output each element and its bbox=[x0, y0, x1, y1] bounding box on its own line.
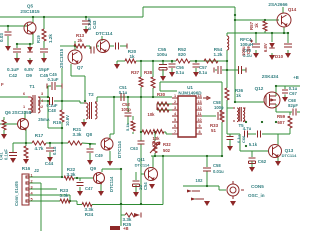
resistor R31 bbox=[142, 130, 164, 135]
svg-text:2SA2666: 2SA2666 bbox=[268, 2, 288, 7]
ground bbox=[249, 167, 255, 172]
wire (62,122)-(62,128) bbox=[61, 122, 63, 128]
ground bbox=[282, 97, 288, 102]
resistor R22 bbox=[64, 176, 74, 180]
wire (276,96)-(276,86) bbox=[275, 86, 277, 96]
wire (44,53)-(44,58) bbox=[43, 53, 45, 58]
wire (153,156)-(153,168) bbox=[152, 156, 154, 168]
connector J2 bbox=[22, 174, 29, 205]
svg-text:R31: R31 bbox=[152, 141, 160, 146]
wire (62,101)-(62,110) bbox=[61, 101, 63, 110]
wire (141,87)-(141,141) bbox=[140, 87, 142, 141]
svg-text:502: 502 bbox=[163, 148, 171, 153]
svg-text:U1: U1 bbox=[187, 85, 193, 90]
wire (62,68)-(62,101) bbox=[61, 68, 63, 101]
wire (222,122)-(222,156) bbox=[221, 122, 223, 156]
wire (0,97)-(28,97) bbox=[0, 96, 28, 98]
transformer T5 bbox=[233, 107, 246, 122]
wire (117,61)-(125,61) bbox=[117, 60, 125, 62]
wire (80,178)-(80,181) bbox=[79, 178, 81, 181]
wire (151,156)-(222,156) bbox=[151, 155, 222, 157]
wire (30,44)-(30,47) bbox=[29, 44, 31, 47]
wire (17,44)-(33,44) bbox=[17, 43, 33, 45]
svg-text:R32: R32 bbox=[163, 142, 171, 147]
junction (62,101) bbox=[61, 100, 63, 102]
svg-text:R19: R19 bbox=[36, 35, 41, 43]
resistor R59 bbox=[288, 116, 292, 128]
wire (62,143)-(62,177) bbox=[61, 143, 63, 177]
svg-text:2k: 2k bbox=[78, 38, 83, 43]
wire (102,169)-(102,172) bbox=[101, 169, 103, 172]
junction (75,46) bbox=[74, 45, 76, 47]
junction (33,17) bbox=[32, 16, 34, 18]
wire (190,61)-(227,61) bbox=[190, 60, 227, 62]
junction (196,61) bbox=[195, 60, 197, 62]
wire (71,64)-(71,76) bbox=[70, 64, 72, 76]
svg-text:T1: T1 bbox=[29, 84, 35, 89]
resistor R24 bbox=[82, 203, 92, 207]
junction (141,61) bbox=[140, 60, 142, 62]
junction (121,204) bbox=[120, 203, 122, 205]
transistor Q6 bbox=[18, 119, 29, 130]
wire (41,183)-(41,231) bbox=[40, 183, 42, 231]
wire (0,17)-(143,17) bbox=[0, 16, 143, 18]
junction (235,102) bbox=[234, 101, 236, 103]
wire (172,68)-(172,72) bbox=[171, 68, 173, 72]
junction (86,17) bbox=[85, 16, 87, 18]
capacitor C49 bbox=[87, 149, 94, 152]
ground bbox=[77, 191, 104, 196]
junction (128,97) bbox=[127, 96, 129, 98]
wire (13,143)-(32,143) bbox=[13, 142, 32, 144]
wire (276,112)-(292,112) bbox=[276, 111, 292, 113]
svg-text:D9: D9 bbox=[26, 73, 32, 78]
capacitor C59 bbox=[250, 40, 260, 48]
capacitor C55 bbox=[159, 61, 167, 76]
wire (4,130)-(4,134) bbox=[3, 130, 5, 134]
ground bbox=[204, 201, 210, 206]
wire (82,143)-(96,144) bbox=[82, 143, 96, 144]
svg-text:10.6V: 10.6V bbox=[65, 115, 70, 126]
wire (276,104)-(276,112) bbox=[275, 104, 277, 112]
wire (56,86)-(62,86) bbox=[56, 85, 62, 87]
svg-text:82pF: 82pF bbox=[288, 103, 298, 108]
junction (246,122) bbox=[245, 121, 247, 123]
svg-text:R30: R30 bbox=[157, 92, 166, 97]
junction (272,33) bbox=[271, 32, 273, 34]
transistor Q13 bbox=[269, 145, 282, 158]
wire (54,101)-(80,101) bbox=[54, 100, 80, 102]
wire (29,177)-(62,177) bbox=[29, 176, 62, 178]
svg-text:C48: C48 bbox=[48, 108, 56, 113]
wire (114,97)-(114,134) bbox=[113, 97, 115, 134]
svg-text:0.03: 0.03 bbox=[0, 33, 4, 42]
wire (30,58)-(30,60) bbox=[29, 58, 31, 60]
wire (141,174)-(144,174) bbox=[141, 173, 144, 175]
svg-text:DTC114: DTC114 bbox=[109, 176, 114, 192]
svg-text:11: 11 bbox=[197, 112, 201, 116]
svg-text:DTC114: DTC114 bbox=[282, 153, 297, 158]
svg-text:2: 2 bbox=[30, 180, 32, 184]
svg-text:0.1uF: 0.1uF bbox=[7, 67, 19, 72]
wire (102,36)-(102,41) bbox=[101, 36, 103, 41]
trimmer R32 bbox=[150, 141, 160, 153]
wire (133,116)-(133,120) bbox=[132, 116, 134, 120]
junction (284,33) bbox=[283, 32, 285, 34]
transistor Q8 bbox=[101, 138, 113, 150]
junction (90,144) bbox=[89, 143, 91, 145]
svg-text:100u: 100u bbox=[241, 46, 246, 56]
capacitor C47 bbox=[77, 183, 84, 186]
resistor R34 bbox=[131, 121, 135, 131]
capacitor C46 bbox=[91, 47, 94, 54]
resistor R23 bbox=[60, 199, 70, 203]
resistor R54 bbox=[204, 59, 218, 63]
capacitor C62 bbox=[249, 158, 256, 164]
wire (40,97)-(48,97) bbox=[40, 96, 48, 98]
wire (26,143)-(26,146) bbox=[25, 143, 27, 146]
svg-text:C49: C49 bbox=[95, 153, 103, 158]
wire (86,26)-(86,29) bbox=[85, 26, 87, 29]
svg-text:5: 5 bbox=[174, 118, 176, 122]
wire (121,169)-(121,226) bbox=[120, 169, 122, 226]
svg-text:8: 8 bbox=[198, 130, 200, 134]
ground bbox=[10, 158, 16, 163]
ground bbox=[253, 53, 291, 58]
capacitor C51 bbox=[121, 93, 124, 101]
ground bbox=[81, 122, 87, 127]
svg-text:6: 6 bbox=[174, 124, 176, 128]
wire (157,110)-(172,110) bbox=[157, 109, 172, 111]
svg-text:3.3k: 3.3k bbox=[67, 172, 76, 177]
wire (163,156)-(163,204.5) bbox=[162, 156, 164, 205]
wire (136,185)-(136,192) bbox=[135, 185, 137, 192]
wire (166,134)-(172,134) bbox=[166, 133, 172, 135]
svg-text:3.3k: 3.3k bbox=[60, 193, 69, 198]
svg-text:Q9: Q9 bbox=[90, 166, 97, 171]
svg-text:15pF: 15pF bbox=[39, 67, 50, 72]
wire (77,201)-(77,204.5) bbox=[76, 201, 78, 205]
svg-text:0.1u: 0.1u bbox=[52, 146, 57, 155]
capacitor C57 bbox=[193, 64, 200, 67]
svg-text:3: 3 bbox=[30, 186, 32, 190]
junction (227,70) bbox=[226, 69, 228, 71]
junction (121,204) bbox=[120, 203, 122, 205]
wire (276,104)-(276,112) bbox=[275, 104, 277, 112]
svg-text:0.01u: 0.01u bbox=[213, 169, 224, 174]
svg-text:+B: +B bbox=[293, 75, 298, 80]
svg-text:51: 51 bbox=[211, 128, 216, 133]
wire (196,68)-(196,72) bbox=[195, 68, 197, 72]
wire (50,143)-(50,147) bbox=[49, 143, 51, 147]
svg-text:DTC114: DTC114 bbox=[96, 31, 113, 36]
wire (85,76)-(85,101) bbox=[84, 76, 86, 101]
wire (157,104)-(172,104) bbox=[157, 103, 172, 105]
capacitor C61 bbox=[239, 66, 247, 74]
wire (227,100)-(227,112) bbox=[226, 100, 228, 112]
svg-text:12: 12 bbox=[197, 106, 201, 110]
wire (77,204.5)-(82,204.5) bbox=[77, 204, 82, 206]
wire (227,70)-(238,70) bbox=[227, 69, 238, 71]
junction (141,204) bbox=[140, 203, 142, 205]
wire (163,69)-(163,76) bbox=[162, 69, 164, 76]
wire (110,134)-(114,134) bbox=[110, 133, 114, 135]
IC U1 NJM1496D bbox=[172, 96, 202, 137]
ground bbox=[27, 60, 33, 65]
ground bbox=[275, 161, 281, 166]
svg-text:Q6 2SC3358: Q6 2SC3358 bbox=[5, 110, 32, 115]
junction (153,97) bbox=[152, 96, 154, 98]
svg-text:6.8V: 6.8V bbox=[24, 67, 34, 72]
junction (207,186) bbox=[206, 185, 208, 187]
resistor R15 bbox=[2, 120, 6, 130]
svg-text:C62: C62 bbox=[258, 159, 267, 164]
wire (33,33)-(33,44) bbox=[32, 33, 34, 44]
wire (0,26)-(27,26) bbox=[0, 25, 27, 27]
wire (25,111)-(25,119) bbox=[24, 111, 26, 119]
wire (272,53)-(272,55) bbox=[271, 53, 273, 55]
junction (70,201) bbox=[69, 200, 71, 202]
svg-text:DTC114: DTC114 bbox=[117, 141, 122, 158]
wire (136,61)-(141,61) bbox=[136, 60, 141, 62]
wire (242,70)-(246,70) bbox=[242, 69, 246, 71]
svg-text:25mA: 25mA bbox=[38, 117, 49, 122]
svg-text:1: 1 bbox=[23, 105, 25, 109]
pin 14 output arrow bbox=[203, 97, 210, 100]
wire (141,144)-(141,174) bbox=[140, 144, 142, 174]
svg-text:1.2k: 1.2k bbox=[48, 34, 53, 43]
wire (285,86)-(285,89) bbox=[284, 86, 286, 89]
svg-text:6: 6 bbox=[23, 92, 25, 96]
wire (133,132)-(133,134) bbox=[132, 132, 134, 134]
ground bbox=[160, 76, 166, 81]
resistor R17 bbox=[32, 141, 46, 145]
svg-text:2: 2 bbox=[174, 100, 176, 104]
wire (265,31)-(265,33) bbox=[264, 31, 266, 33]
junction (207,156) bbox=[206, 155, 208, 157]
resistor R57 bbox=[263, 21, 267, 31]
wire (110,134)-(110,139) bbox=[109, 134, 111, 139]
junction (153,61) bbox=[152, 60, 154, 62]
wire (153,88)-(153,97) bbox=[152, 88, 154, 97]
wire (166,132)-(166,134) bbox=[165, 132, 167, 134]
wire (235,20)-(279,20) bbox=[235, 19, 279, 21]
wire (96,46)-(99,46) bbox=[96, 45, 99, 47]
wire (4,117)-(4,120) bbox=[3, 117, 5, 120]
junction (163,156) bbox=[162, 155, 164, 157]
wire (227,33)-(227,36) bbox=[226, 33, 228, 36]
wire (143,7)-(235,7) bbox=[143, 6, 235, 8]
inductor RFC4 bbox=[227, 36, 229, 50]
resistor R20 bbox=[125, 59, 136, 63]
svg-text:R16: R16 bbox=[22, 166, 31, 171]
resistor R19 bbox=[60, 110, 64, 122]
symbol bbox=[172, 98, 202, 134]
svg-text:0.1uF: 0.1uF bbox=[4, 149, 9, 160]
wire (222,82)-(222,110) bbox=[221, 82, 223, 110]
test point arrow bbox=[187, 190, 204, 201]
resistor R52 bbox=[176, 59, 190, 63]
capacitor C54 bbox=[133, 181, 140, 187]
wire (17,44)-(17,48) bbox=[16, 44, 18, 48]
wire (13,143)-(13,152) bbox=[12, 143, 14, 152]
wire (80,101)-(80,103) bbox=[79, 101, 81, 103]
label 3.3k bbox=[60, 193, 94, 212]
wire (164,132)-(166,132) bbox=[164, 131, 166, 133]
wire (272,33)-(272,42) bbox=[271, 33, 273, 42]
ground bbox=[193, 72, 199, 77]
wire (248,134)-(256,134) bbox=[248, 133, 256, 135]
svg-text:Conn_01x05: Conn_01x05 bbox=[14, 181, 19, 206]
transistor Q10 bbox=[97, 40, 110, 53]
wire (128,116)-(128,124) bbox=[127, 116, 129, 124]
wire (141,61)-(141,77) bbox=[140, 61, 142, 77]
wire (120,46)-(127,46) bbox=[120, 45, 127, 47]
wire (86,46)-(90,46) bbox=[86, 45, 90, 47]
junction (85,101) bbox=[84, 100, 86, 102]
svg-text:7: 7 bbox=[174, 130, 176, 134]
svg-text:2SC1815: 2SC1815 bbox=[59, 48, 64, 68]
transistor Q11 bbox=[145, 168, 158, 181]
svg-text:C44: C44 bbox=[45, 161, 54, 166]
capacitor C41 bbox=[9, 153, 17, 156]
ground bbox=[83, 29, 89, 34]
svg-text:3.3k: 3.3k bbox=[73, 132, 82, 137]
capacitor C45 bbox=[40, 49, 48, 52]
svg-text:2: 2 bbox=[41, 105, 43, 109]
ground bbox=[269, 55, 275, 60]
resistor R38 bbox=[151, 77, 155, 88]
connector CON5 bbox=[227, 181, 244, 199]
junction (227,61) bbox=[226, 60, 228, 62]
svg-text:T2: T2 bbox=[88, 92, 94, 97]
junction (288,33) bbox=[287, 32, 289, 34]
wire (285,94.5)-(285,97) bbox=[284, 95, 286, 98]
svg-text:C58: C58 bbox=[213, 163, 221, 168]
wire (101,184)-(101,191) bbox=[100, 184, 102, 191]
resistor R36 bbox=[225, 88, 229, 100]
wire (141,174)-(141,204) bbox=[140, 174, 142, 204]
wire (60,46)-(74,46) bbox=[60, 45, 74, 47]
wire (29,201)-(60,201) bbox=[29, 200, 60, 202]
wire (0,124)-(18,124) bbox=[0, 123, 18, 125]
transformer T2 bbox=[84, 102, 97, 119]
capacitor C44 bbox=[46, 148, 54, 151]
wire (97,97)-(97,102) bbox=[96, 97, 98, 102]
svg-text:F: F bbox=[1, 82, 4, 87]
transformer T1 bbox=[28, 95, 40, 113]
wire (288,50)-(288,53) bbox=[287, 50, 289, 53]
junction (276,122) bbox=[275, 121, 277, 123]
wire (219,190)-(226,190) bbox=[219, 189, 226, 191]
ground bbox=[227, 146, 233, 151]
svg-text:820: 820 bbox=[178, 52, 186, 57]
wire (117,61)-(117,64) bbox=[116, 61, 118, 64]
svg-text:3: 3 bbox=[41, 92, 43, 96]
wire (222.5,116)-(222,116) bbox=[221, 115, 224, 117]
wire (235,7)-(235,20) bbox=[234, 7, 236, 20]
wire (252,161)-(252,167) bbox=[251, 161, 253, 167]
wire (74,178)-(93,178) bbox=[74, 177, 93, 179]
wire (80,103)-(84,103) bbox=[80, 102, 84, 104]
svg-text:C66: C66 bbox=[241, 135, 246, 143]
capacitor C52 bbox=[125, 113, 132, 116]
wire (33,17)-(33,23) bbox=[32, 17, 34, 23]
wire (172,61)-(172,63) bbox=[171, 61, 173, 63]
junction (141,132) bbox=[140, 131, 142, 133]
wire (70,201)-(77,201) bbox=[70, 200, 77, 202]
wire (202,116)-(216,116) bbox=[202, 115, 216, 117]
zener diode D10 bbox=[269, 43, 275, 48]
junction (262,122) bbox=[261, 121, 263, 123]
wire (290,128)-(290,134) bbox=[289, 128, 291, 134]
svg-text:1.2k: 1.2k bbox=[214, 52, 223, 57]
wire (90,144)-(90,148) bbox=[89, 144, 91, 148]
wire (230,140)-(230,146) bbox=[229, 140, 231, 146]
wire (40,101)-(48,101) bbox=[40, 100, 48, 102]
wire (262,134)-(290,134) bbox=[262, 133, 290, 135]
junction (62,128) bbox=[61, 127, 63, 129]
capacitor C63 bbox=[138, 141, 145, 144]
svg-text:5.1k: 5.1k bbox=[125, 122, 130, 131]
svg-text:R37: R37 bbox=[131, 70, 140, 75]
svg-text:0.1u: 0.1u bbox=[176, 70, 185, 75]
svg-text:100p: 100p bbox=[214, 105, 224, 110]
wire (48,86)-(51,86) bbox=[48, 85, 51, 87]
wire (46,143)-(68,143) bbox=[46, 142, 68, 144]
junction (141,97) bbox=[140, 96, 142, 98]
wire (265,20)-(265,21) bbox=[264, 20, 266, 21]
wire (240,151)-(269,151) bbox=[240, 150, 269, 152]
diode R25 bbox=[125, 213, 141, 218]
wire (227,108)-(233,108) bbox=[227, 107, 233, 109]
junction (114,97) bbox=[113, 96, 115, 98]
wire (235,102)-(264,102) bbox=[235, 101, 264, 103]
capacitor C43 bbox=[82, 21, 90, 24]
junction (48,101) bbox=[47, 100, 49, 102]
wire (227,108)-(227,134) bbox=[226, 108, 228, 134]
capacitor C64 bbox=[245, 131, 248, 138]
wire (196,61)-(196,63) bbox=[195, 61, 197, 63]
wire (160,82)-(222,82) bbox=[160, 81, 222, 83]
junction (276,86) bbox=[275, 85, 277, 87]
wire (207,156)-(207,167) bbox=[206, 156, 208, 167]
svg-text:C63: C63 bbox=[130, 146, 138, 151]
svg-text:Q12: Q12 bbox=[255, 86, 264, 91]
transistor Q7 bbox=[68, 50, 82, 64]
ground bbox=[114, 64, 120, 69]
junction (222,156) bbox=[221, 155, 223, 157]
wire (227,100)-(227,108) bbox=[226, 100, 228, 108]
svg-text:CON5: CON5 bbox=[251, 184, 264, 189]
wire (288,33)-(288,43) bbox=[287, 33, 289, 43]
wire (75,41)-(75,50) bbox=[74, 41, 76, 50]
svg-text:5: 5 bbox=[30, 198, 32, 202]
ground bbox=[1, 134, 7, 139]
svg-text:13: 13 bbox=[197, 100, 201, 104]
svg-text:J2: J2 bbox=[34, 168, 40, 173]
svg-text:Q5: Q5 bbox=[27, 4, 34, 9]
svg-text:Q11: Q11 bbox=[137, 157, 145, 162]
junction (256,33) bbox=[255, 32, 257, 34]
wire (86,17)-(86,20) bbox=[85, 17, 87, 20]
junction (121,169) bbox=[120, 168, 122, 170]
wire (256,33)-(256,43) bbox=[255, 33, 257, 43]
wire (219,186)-(219,190) bbox=[218, 186, 220, 190]
wire (90,153)-(90,160) bbox=[89, 153, 91, 160]
wire (121,215)-(125,215) bbox=[121, 214, 125, 216]
svg-text:Q8: Q8 bbox=[86, 132, 93, 137]
